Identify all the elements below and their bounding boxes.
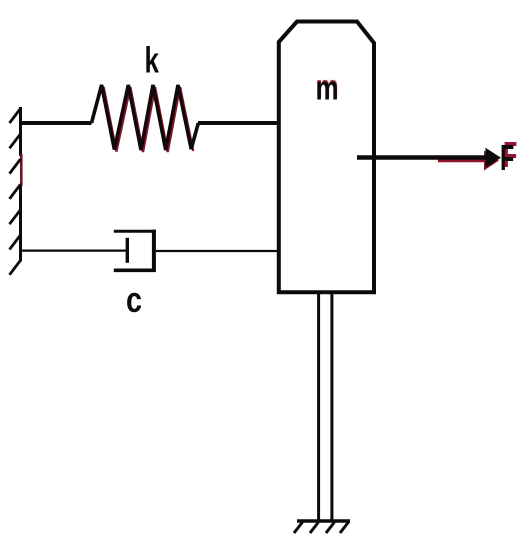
wall hatch 4 — [10, 184, 21, 199]
wall red fringe segment — [20, 154, 23, 186]
ground hatch 4 — [340, 522, 349, 533]
support rod left line — [317, 293, 320, 521]
spring k — [92, 85, 199, 150]
wall hatch 7 — [10, 260, 21, 275]
force arrow F head — [486, 148, 502, 168]
svg-text:c: c — [126, 279, 142, 320]
svg-text:k: k — [145, 40, 160, 80]
mass m body — [279, 22, 374, 293]
ground hatch 2 — [310, 522, 319, 533]
damper piston — [126, 238, 129, 263]
wall hatch 6 — [10, 235, 21, 250]
svg-text:m: m — [316, 70, 339, 107]
support rod right line — [330, 293, 333, 521]
damper cylinder right — [152, 230, 156, 272]
ground hatch 1 — [294, 522, 303, 533]
fixed wall (left support) — [19, 107, 22, 262]
wall hatch 3 — [10, 159, 21, 174]
damper cylinder bottom — [114, 268, 156, 272]
wall hatch 2 — [10, 134, 21, 149]
force arrow F shaft — [357, 155, 487, 160]
spring K red under-copy — [104, 87, 194, 152]
force arrow red under-copy — [438, 151, 499, 171]
wall hatch 5 — [10, 210, 21, 225]
wire: wall to damper piston rod — [19, 250, 127, 252]
wire: damper cylinder to mass — [156, 250, 278, 252]
damper cylinder top — [114, 230, 156, 233]
ground hatch 3 — [326, 522, 335, 533]
wire: spring to mass — [198, 121, 278, 125]
wire: wall to spring — [19, 121, 92, 125]
wall hatch 1 — [10, 109, 21, 124]
svg-text:F: F — [500, 139, 514, 178]
ground line — [297, 519, 350, 523]
